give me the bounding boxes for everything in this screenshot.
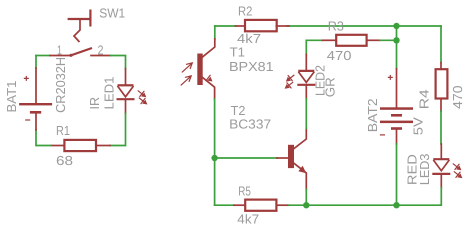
T2 base pin <box>277 157 288 159</box>
LED1 cathode bar <box>117 98 135 100</box>
R2 body <box>245 20 277 31</box>
junction T1 emitter / T2 base <box>211 155 217 161</box>
svg-text:RED: RED <box>405 154 420 185</box>
wire R4 to LED3 <box>440 111 442 144</box>
BAT1 minus pin <box>35 113 37 129</box>
svg-text:4k7: 4k7 <box>237 211 259 226</box>
LED2 emission arrow 1 <box>288 75 294 80</box>
svg-text:R5: R5 <box>238 183 251 198</box>
R3 right pin <box>367 39 380 41</box>
SW1 actuator right bar <box>89 10 91 27</box>
T2 base bar <box>288 145 294 168</box>
LED D3 (red LED3) <box>432 144 462 188</box>
svg-text:470: 470 <box>327 48 352 63</box>
svg-text:BAT2: BAT2 <box>365 98 380 132</box>
wire right rail top <box>440 26 442 63</box>
T1 light arrow 2 <box>181 76 191 85</box>
LED3 emission arrow 1 <box>453 164 459 169</box>
wire T1 collector drop <box>214 26 216 39</box>
wire R3 to mid rail <box>380 39 397 41</box>
junction R3 right <box>393 37 399 43</box>
LED2 triangle sides <box>298 72 314 83</box>
LED3 cathode pin <box>440 175 442 188</box>
wire BAT2 minus to bottom rail <box>396 144 398 205</box>
T1 base bar <box>197 54 202 86</box>
transistor T2 BC337 <box>277 128 306 189</box>
R5 right pin <box>276 204 289 206</box>
SW1 actuator stem and spring zigzag <box>74 19 80 42</box>
LED2 emission arrow 2 <box>287 82 293 87</box>
wire T2 emitter to bottom rail <box>305 190 307 206</box>
wire T2 base <box>215 157 277 159</box>
R1 left pin <box>51 145 65 147</box>
R4 top pin <box>440 63 442 70</box>
SW1 pivot nub <box>69 54 72 57</box>
T1 emitter <box>203 78 215 100</box>
svg-text:R3: R3 <box>328 18 344 33</box>
svg-text:GR: GR <box>323 77 338 97</box>
svg-text:68: 68 <box>56 153 73 168</box>
wire mid rail from top junction <box>396 26 398 69</box>
svg-text:BPX81: BPX81 <box>229 59 274 74</box>
switch SW1 <box>50 10 111 57</box>
svg-text:R2: R2 <box>238 4 252 19</box>
wire bottom rail <box>289 204 441 206</box>
wire LED2 cathode to T2 collector <box>305 99 307 128</box>
resistor R1 <box>51 140 110 151</box>
svg-text:SW1: SW1 <box>99 6 125 21</box>
BAT1 plus sign <box>24 76 29 81</box>
BAT2 plate 3 long <box>380 121 413 124</box>
LED3 emission arrow 2 <box>454 172 460 177</box>
junction T2 emitter / R5 <box>303 202 309 208</box>
LED3 cathode bar <box>432 173 450 175</box>
BAT2 minus pin <box>396 130 398 144</box>
resistor R2 <box>236 20 290 31</box>
LED2 cathode bar <box>297 84 315 86</box>
BAT1 plus pin <box>35 68 37 103</box>
wire LED2 top from R3 <box>306 40 322 54</box>
wire top rail left segment <box>215 25 236 27</box>
BAT2 plus sign <box>388 75 393 80</box>
LED1 cathode pin <box>125 100 127 113</box>
T2 collector <box>294 128 306 148</box>
junction top rail <box>393 23 399 29</box>
svg-text:R1: R1 <box>56 123 70 138</box>
BAT2 plate 2 short <box>391 114 402 117</box>
R1 body <box>64 140 96 151</box>
LED D1 (IR LED1) <box>117 69 148 114</box>
LED3 triangle sides <box>433 160 449 171</box>
BAT2 plate 1 long <box>380 107 413 110</box>
LED D2 (green LED2) <box>285 54 316 99</box>
wire net1 left vertical to BAT1 <box>35 56 37 69</box>
SW1 pin 1 stub <box>50 55 71 57</box>
BAT2 plus pin <box>396 69 398 108</box>
resistor R5 <box>234 200 289 211</box>
BAT1 negative plate <box>30 111 41 114</box>
LED2 triangle top edge <box>298 70 314 72</box>
T2 emitter arrowhead <box>298 166 306 173</box>
LED3 triangle top edge <box>433 158 449 160</box>
LED2 cathode pin <box>305 86 307 99</box>
transistor T1 phototransistor BPX81 <box>181 39 215 99</box>
wire T1 emitter rail down <box>214 99 216 205</box>
svg-text:1: 1 <box>57 43 62 58</box>
resistor R3 <box>323 35 381 46</box>
BAT2 minus sign <box>380 134 385 136</box>
junction BAT2 minus <box>393 202 399 208</box>
LED3 anode pin <box>440 144 442 159</box>
wire pin2 to LED1 <box>111 56 126 69</box>
svg-text:2: 2 <box>98 42 104 57</box>
svg-text:BC337: BC337 <box>229 117 271 132</box>
wire top rail right segment <box>287 25 441 27</box>
T1 emitter arrow head <box>207 77 212 82</box>
R4 body <box>436 69 448 98</box>
svg-text:CR2032H: CR2032H <box>53 57 68 113</box>
BAT1 minus sign <box>25 119 30 121</box>
battery BAT1 <box>19 68 52 130</box>
svg-text:LED1: LED1 <box>102 77 117 110</box>
svg-text:470: 470 <box>450 85 465 109</box>
LED1 triangle top edge <box>118 84 134 86</box>
R3 body <box>336 35 366 46</box>
R4 bottom pin <box>440 99 442 112</box>
BAT1 positive plate <box>19 103 52 105</box>
LED1 emission arrow 1 <box>138 91 144 96</box>
LED1 anode pin <box>125 69 127 85</box>
SW1 pin 2 stub <box>91 55 111 57</box>
R2 left pin <box>236 25 246 27</box>
svg-text:T1: T1 <box>230 45 245 60</box>
resistor R4 <box>436 63 448 111</box>
wire LED1 cathode to R1 <box>110 113 126 145</box>
LED1 triangle sides <box>118 86 134 97</box>
wire net1 left top horizontal <box>36 55 50 57</box>
R5 left pin <box>234 204 245 206</box>
R2 right pin <box>276 25 289 27</box>
svg-text:R4: R4 <box>417 89 432 109</box>
LED2 anode pin <box>305 54 307 71</box>
wire BAT1 minus to R1 <box>36 130 51 146</box>
wire bottom rail left <box>215 204 234 206</box>
T1 collector pin <box>203 39 215 57</box>
svg-text:IR: IR <box>87 97 102 110</box>
svg-text:5V: 5V <box>411 117 426 135</box>
R5 body <box>245 200 276 211</box>
battery BAT2 <box>380 69 413 144</box>
SW1 actuator T-bar <box>68 18 92 20</box>
SW1 lever <box>71 48 93 56</box>
R1 right pin <box>96 145 110 147</box>
svg-text:BAT1: BAT1 <box>4 81 19 113</box>
T1 light arrow 1 <box>182 63 192 72</box>
wire LED3 cathode to bottom rail <box>440 188 441 206</box>
LED1 emission arrow 2 <box>139 98 145 103</box>
svg-text:T2: T2 <box>231 103 246 118</box>
R3 left pin <box>323 39 337 41</box>
T2 emitter <box>294 163 306 189</box>
BAT2 plate 4 short <box>391 127 402 130</box>
